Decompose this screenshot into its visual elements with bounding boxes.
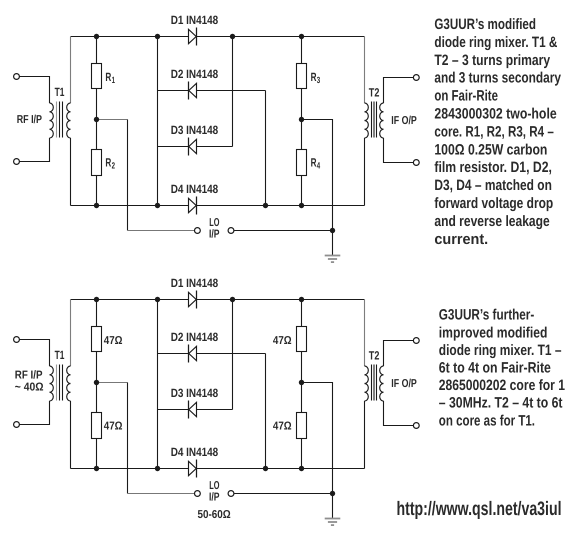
svg-text:~ 40Ω: ~ 40Ω — [15, 382, 44, 394]
svg-text:6t to 4t on Fair-Rite: 6t to 4t on Fair-Rite — [439, 360, 551, 377]
svg-text:2: 2 — [112, 161, 115, 171]
svg-text:T1: T1 — [55, 85, 65, 99]
svg-text:R: R — [105, 70, 111, 84]
svg-text:1: 1 — [112, 75, 115, 85]
svg-text:D3, D4 – matched on: D3, D4 – matched on — [434, 177, 552, 194]
svg-text:LO: LO — [209, 217, 219, 229]
svg-text:T2 – 3 turns primary: T2 – 3 turns primary — [434, 52, 550, 69]
svg-text:IF O/P: IF O/P — [391, 378, 417, 390]
svg-text:improved modified: improved modified — [439, 324, 548, 341]
svg-text:D4 IN4148: D4 IN4148 — [171, 182, 219, 196]
svg-text:and reverse leakage: and reverse leakage — [434, 213, 549, 230]
svg-text:on core as for T1.: on core as for T1. — [439, 412, 535, 429]
svg-text:core. R1, R2, R3, R4 –: core. R1, R2, R3, R4 – — [434, 123, 553, 140]
svg-text:47Ω: 47Ω — [104, 335, 123, 347]
svg-text:D2 IN4148: D2 IN4148 — [171, 330, 219, 344]
svg-text:on Fair-Rite: on Fair-Rite — [434, 88, 498, 105]
svg-text:D1 IN4148: D1 IN4148 — [171, 13, 219, 27]
svg-text:T2: T2 — [369, 349, 380, 363]
svg-text:D2 IN4148: D2 IN4148 — [171, 67, 219, 81]
svg-text:50-60Ω: 50-60Ω — [198, 509, 231, 521]
svg-text:RF I/P: RF I/P — [15, 369, 43, 381]
svg-text:D4 IN4148: D4 IN4148 — [171, 445, 219, 459]
svg-text:3: 3 — [317, 75, 320, 85]
svg-text:2865000202 core for 1: 2865000202 core for 1 — [439, 377, 565, 394]
svg-text:47Ω: 47Ω — [273, 335, 292, 347]
svg-text:I/P: I/P — [209, 229, 220, 241]
svg-text:4: 4 — [317, 161, 320, 171]
svg-text:G3UUR’s further-: G3UUR’s further- — [439, 307, 535, 324]
svg-text:R: R — [105, 156, 111, 170]
svg-text:G3UUR’s modified: G3UUR’s modified — [434, 16, 536, 33]
svg-text:R: R — [311, 156, 317, 170]
svg-text:2843000302 two-hole: 2843000302 two-hole — [434, 106, 556, 123]
svg-text:D3 IN4148: D3 IN4148 — [171, 386, 219, 400]
svg-text:film resistor. D1, D2,: film resistor. D1, D2, — [434, 159, 552, 176]
svg-text:T1: T1 — [55, 348, 65, 362]
svg-text:D1 IN4148: D1 IN4148 — [171, 276, 219, 290]
svg-text:diode ring mixer. T1 &: diode ring mixer. T1 & — [434, 34, 557, 51]
svg-text:current.: current. — [434, 231, 488, 248]
svg-text:RF I/P: RF I/P — [17, 114, 43, 126]
svg-text:http://www.qsl.net/va3iul: http://www.qsl.net/va3iul — [397, 498, 562, 520]
svg-text:diode ring mixer. T1 –: diode ring mixer. T1 – — [439, 342, 562, 359]
svg-text:47Ω: 47Ω — [273, 421, 292, 433]
svg-text:I/P: I/P — [209, 492, 220, 504]
svg-text:IF O/P: IF O/P — [391, 115, 417, 127]
svg-text:D3 IN4148: D3 IN4148 — [171, 123, 219, 137]
svg-text:forward voltage drop: forward voltage drop — [434, 195, 553, 212]
svg-text:and 3 turns secondary: and 3 turns secondary — [434, 70, 561, 87]
svg-text:– 30MHz. T2 – 4t to 6t: – 30MHz. T2 – 4t to 6t — [439, 395, 563, 412]
svg-text:100Ω 0.25W carbon: 100Ω 0.25W carbon — [434, 141, 547, 158]
svg-text:T2: T2 — [369, 86, 380, 100]
svg-text:47Ω: 47Ω — [104, 421, 123, 433]
svg-text:LO: LO — [209, 480, 219, 492]
svg-text:R: R — [311, 70, 317, 84]
